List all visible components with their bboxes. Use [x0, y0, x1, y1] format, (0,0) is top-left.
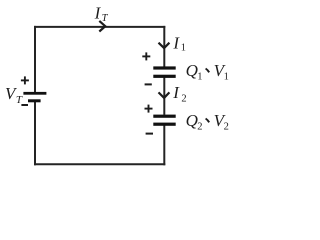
label Q1 V1 [186, 61, 229, 83]
capacitor C2 [153, 115, 175, 126]
svg-text:Q: Q [186, 61, 198, 80]
wire left [34, 26, 36, 165]
capacitor C1 plus [142, 52, 150, 60]
current arrow I1 [159, 43, 170, 48]
wire bottom [34, 163, 165, 165]
current arrow I_T [99, 21, 105, 32]
wire right upper [163, 26, 165, 67]
svg-text:I: I [172, 33, 180, 52]
label I_1 [172, 33, 186, 53]
current arrow I2 [159, 92, 170, 98]
wire right lower [163, 125, 165, 165]
wire top [34, 26, 165, 28]
svg-text:Q: Q [186, 111, 198, 130]
svg-text:2: 2 [224, 122, 229, 133]
label I_T [94, 3, 109, 24]
svg-text:T: T [102, 13, 109, 24]
label I_2 [172, 83, 186, 104]
svg-text:1: 1 [197, 72, 202, 83]
capacitor C1 minus [145, 83, 152, 85]
svg-text:T: T [16, 94, 23, 106]
wire right middle [163, 78, 165, 115]
svg-text:2: 2 [197, 122, 202, 133]
label Q2 V2 [186, 111, 229, 133]
capacitor C2 minus [146, 133, 153, 135]
label V_T [5, 84, 23, 106]
battery minus [21, 104, 28, 106]
battery VT [23, 92, 46, 102]
svg-text:1: 1 [181, 43, 186, 54]
svg-text:1: 1 [224, 72, 229, 83]
capacitor C2 plus [145, 105, 153, 113]
svg-text:I: I [172, 83, 180, 102]
svg-text:I: I [94, 3, 102, 22]
svg-text:2: 2 [181, 93, 186, 104]
capacitor C1 [153, 66, 175, 77]
battery plus [21, 76, 29, 84]
